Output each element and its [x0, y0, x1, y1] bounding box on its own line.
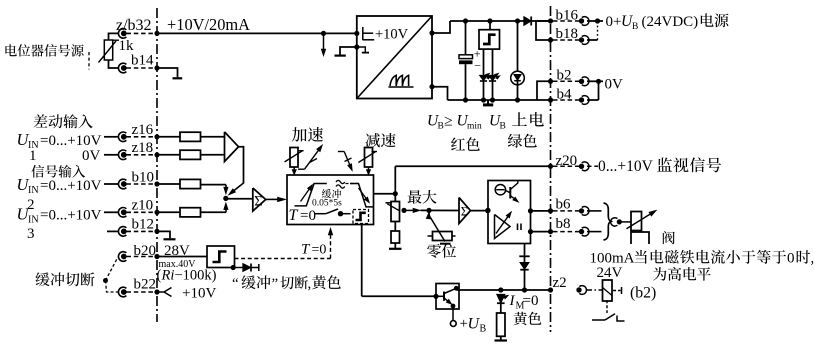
svg-text:z/b32: z/b32 — [116, 17, 152, 34]
svg-text:0...+10V: 0...+10V — [598, 158, 654, 175]
svg-text:Σ: Σ — [461, 203, 469, 218]
svg-text:1: 1 — [29, 148, 37, 164]
svg-text:b14: b14 — [131, 53, 154, 69]
svg-text:B: B — [500, 122, 506, 132]
svg-text:b10: b10 — [132, 169, 155, 185]
svg-text:b18: b18 — [556, 26, 579, 42]
svg-text:=0...+10V: =0...+10V — [40, 133, 102, 149]
svg-text:=0: =0 — [523, 293, 539, 309]
svg-text:b22: b22 — [134, 277, 157, 293]
svg-text:≥: ≥ — [444, 113, 453, 130]
svg-text:z16: z16 — [132, 122, 154, 138]
svg-text:b4: b4 — [557, 87, 573, 103]
svg-text:(b2): (b2) — [630, 285, 656, 302]
svg-text:I: I — [509, 293, 516, 309]
svg-text:b20: b20 — [134, 243, 157, 259]
svg-text:b8: b8 — [556, 216, 571, 232]
svg-text:24V: 24V — [597, 265, 623, 281]
svg-text:“: “ — [232, 276, 239, 292]
svg-text:=0...+10V: =0...+10V — [40, 178, 102, 194]
svg-text:3: 3 — [27, 226, 35, 242]
svg-text:(24VDC): (24VDC) — [642, 14, 699, 30]
svg-text:=0: =0 — [312, 243, 327, 258]
svg-text:z2: z2 — [553, 275, 567, 291]
svg-text:”: ” — [272, 276, 279, 292]
svg-text:b16: b16 — [556, 8, 579, 24]
svg-text:IN: IN — [28, 215, 39, 226]
svg-text:+10V/20mA: +10V/20mA — [167, 15, 250, 34]
svg-text:2: 2 — [27, 197, 35, 213]
svg-text:T: T — [289, 207, 299, 224]
svg-text:=0: =0 — [300, 208, 316, 224]
svg-text:0.05*5s: 0.05*5s — [312, 199, 342, 209]
svg-text:+10V: +10V — [375, 27, 409, 43]
svg-text:B: B — [438, 122, 444, 132]
svg-text:z20: z20 — [556, 153, 578, 169]
svg-text:min: min — [467, 122, 482, 132]
svg-text:b6: b6 — [556, 197, 572, 213]
svg-text:100mA: 100mA — [590, 251, 635, 267]
svg-text:0V: 0V — [605, 77, 624, 93]
svg-text:,: , — [811, 251, 814, 267]
svg-text:=0...+10V: =0...+10V — [40, 208, 102, 224]
svg-text:Σ: Σ — [254, 193, 262, 209]
svg-text:−: − — [474, 59, 481, 73]
svg-text:z18: z18 — [132, 140, 154, 156]
svg-text:IN: IN — [28, 185, 39, 196]
svg-text:b2: b2 — [557, 68, 572, 84]
svg-text:−100k): −100k) — [175, 268, 217, 284]
svg-text:28V: 28V — [164, 243, 190, 259]
svg-text:B: B — [632, 22, 638, 32]
svg-text:B: B — [480, 324, 487, 335]
svg-text:+10V: +10V — [182, 286, 216, 302]
svg-text:0+: 0+ — [606, 14, 622, 30]
svg-text:b12: b12 — [132, 217, 155, 233]
svg-text:z10: z10 — [132, 198, 154, 214]
svg-text:0: 0 — [787, 251, 795, 267]
svg-text:,: , — [308, 276, 312, 292]
svg-text:0V: 0V — [82, 148, 101, 164]
svg-text:Ri: Ri — [161, 268, 175, 284]
